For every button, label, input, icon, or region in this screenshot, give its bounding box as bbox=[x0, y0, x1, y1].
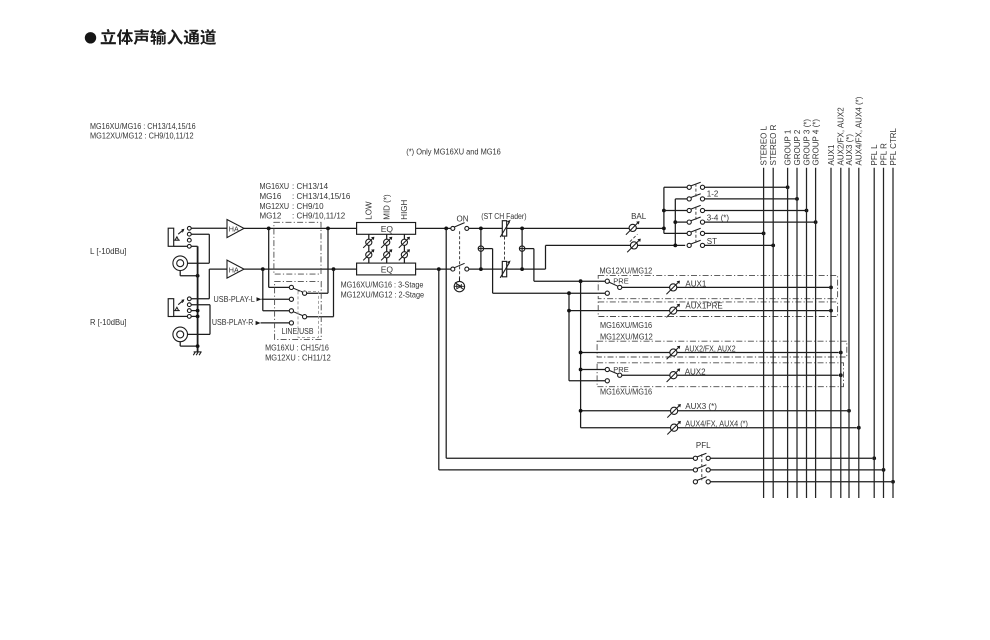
pot AUX2 bbox=[670, 372, 677, 379]
block EQ R bbox=[357, 263, 416, 275]
svg-text:: CH13/14,15/16: : CH13/14,15/16 bbox=[292, 192, 351, 201]
wire R ON to corner bbox=[469, 268, 546, 270]
wire group feed L row5 bbox=[664, 232, 687, 234]
box AUX1 bbox=[598, 275, 837, 298]
svg-text:AUX1: AUX1 bbox=[685, 280, 706, 289]
svg-text:MG16XU/MG16 : 3-Stage: MG16XU/MG16 : 3-Stage bbox=[341, 280, 424, 289]
svg-text:PFL: PFL bbox=[696, 441, 711, 450]
svg-text:HA: HA bbox=[229, 265, 239, 274]
box AUX1PRE bbox=[598, 302, 837, 317]
junction PFL L pickoff bbox=[444, 227, 448, 231]
wire group feed R vertical bbox=[674, 199, 676, 246]
junction RCA L ground bbox=[196, 274, 200, 278]
box model variant B bbox=[275, 281, 322, 339]
svg-text:GROUP 3 (*): GROUP 3 (*) bbox=[802, 119, 811, 166]
svg-text:MG16XU : CH15/16: MG16XU : CH15/16 bbox=[265, 343, 329, 352]
wire jack L contact2 bbox=[191, 233, 209, 235]
svg-text:GROUP 2: GROUP 2 bbox=[793, 129, 802, 165]
amp HA L bbox=[227, 220, 244, 238]
switch ST gang bbox=[695, 230, 697, 244]
svg-text:STEREO R: STEREO R bbox=[769, 124, 778, 165]
svg-text:USB-PLAY-L: USB-PLAY-L bbox=[214, 295, 256, 304]
junction AUX2 PRE branch bbox=[579, 368, 583, 372]
wire prefader vertical B bbox=[568, 293, 570, 381]
wire ground bus vertical bbox=[197, 246, 199, 352]
junction PFL R pickoff bbox=[437, 267, 441, 271]
wire jack L contact1 to HA1 bbox=[191, 227, 227, 229]
fader L bbox=[502, 221, 506, 236]
wire group feed L vertical bbox=[663, 187, 665, 233]
svg-text:USB-PLAY-R: USB-PLAY-R bbox=[212, 318, 254, 327]
junction AUX3 branch bbox=[579, 409, 583, 413]
pot BAL R bbox=[630, 242, 637, 249]
wire AUX1 row bbox=[622, 286, 829, 288]
junction R postfader sum bbox=[520, 267, 524, 271]
junction AUX3 bus bbox=[847, 409, 851, 413]
ground symbol bbox=[193, 352, 201, 355]
wire group feed R row4 bbox=[675, 221, 687, 223]
junction jack R contact3 bbox=[196, 309, 200, 313]
svg-text:MG12XU/MG12 : CH9/10,11/12: MG12XU/MG12 : CH9/10,11/12 bbox=[90, 132, 194, 141]
label channel table bbox=[260, 182, 351, 220]
wire RCA L ground stub bbox=[179, 271, 181, 276]
arrow USB-PLAY-L bbox=[257, 297, 262, 301]
wire RCA R ground stub bbox=[179, 342, 181, 346]
svg-text:BAL: BAL bbox=[631, 212, 647, 221]
svg-text:PRE: PRE bbox=[613, 276, 628, 285]
pot AUX1PRE bbox=[670, 307, 677, 314]
wire AUX2 PRE upper bbox=[581, 369, 606, 371]
junction AUX1PRE branch bbox=[567, 309, 571, 313]
wire group feed R row2 bbox=[675, 198, 687, 200]
amp HA R bbox=[227, 260, 244, 278]
svg-text:L [-10dBu]: L [-10dBu] bbox=[90, 247, 127, 256]
wire to HA2 input bbox=[209, 268, 227, 270]
wire R HA2 to EQ bbox=[244, 268, 357, 270]
junction AUX1 bus bbox=[829, 286, 833, 290]
junction L postfader sum bbox=[520, 227, 524, 231]
switch ON R bbox=[451, 267, 455, 271]
svg-text:MG12XU/MG12: MG12XU/MG12 bbox=[600, 267, 653, 276]
wire riser RCA L to jack contact 2 bbox=[208, 234, 210, 263]
wire AUX2 row bbox=[622, 374, 839, 376]
box AUX2FX bbox=[597, 341, 847, 357]
junction prefader aux branch bbox=[567, 291, 571, 295]
wire prefader sum riser bbox=[480, 228, 482, 269]
switch LINE/USB L bbox=[289, 285, 293, 289]
svg-text:GROUP 4 (*): GROUP 4 (*) bbox=[812, 119, 821, 166]
svg-text:MG16XU/MG16: MG16XU/MG16 bbox=[600, 321, 653, 330]
wire riser jack R to HA2 bbox=[208, 269, 210, 299]
phone jack L tip contact glyph bbox=[178, 230, 183, 235]
svg-text:LOW: LOW bbox=[365, 201, 374, 220]
wire RCA L tip to riser bbox=[188, 262, 210, 264]
svg-text:EQ: EQ bbox=[381, 264, 394, 274]
node sum prefader bbox=[478, 246, 483, 251]
wire R EQ to ON bbox=[416, 268, 451, 270]
svg-text:PFL CTRL: PFL CTRL bbox=[889, 127, 898, 165]
box usb switch inner bbox=[298, 291, 319, 337]
svg-text:PFL R: PFL R bbox=[879, 143, 888, 166]
wire AUX4 row bbox=[581, 427, 857, 429]
svg-text:AUX4/FX, AUX4 (*): AUX4/FX, AUX4 (*) bbox=[685, 420, 748, 429]
svg-text:MG12XU: MG12XU bbox=[260, 202, 290, 211]
title text 立体声输入通道 (drawn as paths) bbox=[101, 29, 216, 45]
junction L line/usb return bbox=[326, 227, 330, 231]
connector phone jack R sleeve bbox=[168, 299, 174, 317]
svg-text:ON: ON bbox=[457, 215, 469, 224]
block EQ L bbox=[357, 223, 416, 235]
wire L switch common return bbox=[307, 292, 328, 294]
switch ON gang dashes bbox=[459, 231, 461, 277]
junction AUX2FX branch bbox=[579, 351, 583, 355]
switch PFL gang bbox=[701, 454, 703, 480]
connector RCA R bbox=[173, 327, 188, 342]
pot BAL L bbox=[629, 224, 636, 231]
wire L branch down to switch bbox=[268, 228, 270, 287]
svg-text:EQ: EQ bbox=[381, 224, 394, 234]
wire L ON to BAL bbox=[469, 227, 664, 229]
junction AUX2 bus bbox=[839, 373, 843, 377]
switch 3-4 gang bbox=[695, 207, 697, 221]
svg-text:: CH13/14: : CH13/14 bbox=[292, 182, 329, 191]
svg-text:MG12: MG12 bbox=[260, 211, 282, 220]
svg-text:MG16XU/MG16: MG16XU/MG16 bbox=[600, 388, 653, 397]
svg-text:(ST CH Fader): (ST CH Fader) bbox=[481, 212, 526, 221]
wire jack R contact1 bbox=[191, 298, 209, 300]
wire group outputs to buses bbox=[705, 186, 788, 188]
svg-text:MID (*): MID (*) bbox=[382, 194, 391, 220]
wire AUX2FX row bbox=[581, 352, 839, 354]
wire PFL L out bbox=[710, 457, 872, 459]
pot EQ gain x6 bbox=[366, 239, 372, 245]
wire R branch down to switch bbox=[262, 269, 264, 311]
svg-text:3-4 (*): 3-4 (*) bbox=[707, 213, 730, 222]
wire jack R contact3 to ground bus bbox=[191, 310, 197, 312]
wire group feed L row1 bbox=[664, 186, 687, 188]
svg-text:AUX2: AUX2 bbox=[685, 368, 706, 377]
junction postfader aux branch bbox=[579, 279, 583, 283]
pot BAL gang dashes bbox=[630, 234, 638, 242]
wire USB-PLAY-R bbox=[261, 322, 290, 324]
wire postfader vertical A bbox=[580, 281, 582, 428]
junction group feed R mid bbox=[673, 220, 677, 224]
fader gang dashes bbox=[504, 237, 506, 262]
junction jack R contact4 bbox=[196, 315, 200, 319]
wire PFL R out bbox=[710, 469, 881, 471]
box model variant A bbox=[274, 222, 321, 274]
svg-text:AUX3 (*): AUX3 (*) bbox=[685, 402, 717, 411]
connector phone jack L contacts bbox=[187, 226, 191, 230]
box AUX2 bbox=[597, 363, 843, 387]
phone jack R tip contact glyph bbox=[178, 300, 183, 305]
connector phone jack R contacts bbox=[187, 297, 191, 301]
svg-text:HIGH: HIGH bbox=[400, 199, 409, 219]
wire jack L sleeve to ground bus bbox=[191, 245, 197, 247]
switch 1-2 gang bbox=[695, 184, 697, 198]
svg-text:R [-10dBu]: R [-10dBu] bbox=[90, 318, 127, 327]
svg-text:MG16XU: MG16XU bbox=[260, 182, 290, 191]
switch AUX1 PRE bbox=[605, 279, 609, 283]
wire group feed L row3 bbox=[664, 210, 687, 212]
svg-text:: CH9/10: : CH9/10 bbox=[292, 202, 324, 211]
node sum postfader bbox=[519, 246, 524, 251]
svg-text:MG12XU/MG12 : 2-Stage: MG12XU/MG12 : 2-Stage bbox=[341, 290, 425, 299]
fader R bbox=[502, 261, 506, 276]
arrow USB-PLAY-R bbox=[256, 321, 261, 325]
wire L EQ to ON bbox=[416, 227, 451, 229]
switch PFL x3 bbox=[693, 456, 697, 460]
svg-text:PFL L: PFL L bbox=[870, 144, 879, 166]
title bullet bbox=[85, 32, 96, 43]
junction R line/usb branch bbox=[261, 267, 265, 271]
junction AUX2FX bus bbox=[839, 351, 843, 355]
wire AUX2 PRE lower bbox=[569, 380, 605, 382]
svg-text:MG16XU/MG16 : CH13/14,15/16: MG16XU/MG16 : CH13/14,15/16 bbox=[90, 122, 196, 131]
junction R prefader sum bbox=[479, 267, 483, 271]
wire USB-PLAY-L bbox=[262, 298, 290, 300]
phone jack R ring contact glyph bbox=[174, 310, 180, 312]
junction group feed L mid bbox=[662, 209, 666, 213]
pot AUX3 bbox=[671, 407, 678, 414]
bus lines x13 bbox=[763, 168, 765, 498]
wire riser RCA R to jack R contact2 bbox=[209, 305, 211, 335]
wire EQ interconnects bbox=[368, 234, 370, 263]
wire R switch common return bbox=[307, 316, 334, 318]
wire R corner up bbox=[545, 245, 547, 269]
connector RCA L bbox=[173, 256, 188, 271]
wire prefader feed bbox=[484, 248, 493, 250]
svg-text:ST: ST bbox=[707, 237, 717, 246]
wire PFL CTRL out bbox=[710, 481, 891, 483]
wire L HA1 to EQ bbox=[244, 227, 357, 229]
pot AUX4 bbox=[671, 424, 678, 431]
junction RCA R ground bbox=[196, 344, 200, 348]
wire postfader feed bbox=[525, 248, 534, 250]
switch ON L bbox=[451, 226, 455, 230]
wire postfader sum riser bbox=[521, 228, 523, 269]
svg-text:AUX4/FX, AUX4 (*): AUX4/FX, AUX4 (*) bbox=[855, 96, 864, 165]
wire AUX1PRE row bbox=[569, 310, 829, 312]
pot AUX1 bbox=[670, 284, 677, 291]
svg-text:AUX3 (*): AUX3 (*) bbox=[845, 134, 854, 166]
phone jack R sleeve wire bbox=[174, 315, 188, 317]
junction L line/usb branch bbox=[267, 227, 271, 231]
phone jack L ring contact glyph bbox=[174, 239, 180, 241]
wire RCA R tip bbox=[188, 333, 211, 335]
wire PFL L pickoff bbox=[445, 228, 447, 458]
svg-text:HA: HA bbox=[229, 225, 239, 234]
switch LINE/USB R bbox=[289, 309, 293, 313]
wire R to group feed bbox=[546, 244, 686, 246]
svg-text:MG12XU/MG12: MG12XU/MG12 bbox=[600, 333, 653, 342]
junction L prefader sum bbox=[479, 227, 483, 231]
wire jack R contact2 bbox=[191, 304, 210, 306]
svg-text:AUX1: AUX1 bbox=[827, 144, 836, 165]
svg-text:MG12XU : CH11/12: MG12XU : CH11/12 bbox=[265, 354, 331, 363]
junction AUX4 bus bbox=[857, 426, 861, 430]
svg-text:STEREO L: STEREO L bbox=[760, 125, 769, 165]
svg-text:MG16: MG16 bbox=[260, 192, 282, 201]
indicator ON lamp bbox=[454, 281, 464, 291]
switch group assign x6 bbox=[687, 185, 691, 189]
svg-text:1-2: 1-2 bbox=[707, 189, 719, 198]
pot AUX2FX bbox=[670, 349, 677, 356]
wire PFL R pickoff bbox=[438, 269, 440, 470]
connector phone jack L sleeve bbox=[168, 228, 174, 246]
svg-text:GROUP 1: GROUP 1 bbox=[784, 129, 793, 165]
junction R line/usb return bbox=[332, 267, 336, 271]
phone jack L sleeve wire bbox=[174, 245, 188, 247]
wire jack R contact4 to ground bus bbox=[191, 315, 197, 317]
svg-text:PRE: PRE bbox=[613, 365, 628, 374]
svg-text:AUX1PRE: AUX1PRE bbox=[685, 302, 722, 311]
junction AUX1PRE bus bbox=[829, 309, 833, 313]
svg-text:(*) Only MG16XU and MG16: (*) Only MG16XU and MG16 bbox=[406, 147, 501, 156]
switch AUX2 PRE bbox=[605, 367, 609, 371]
svg-text:: CH9/10,11/12: : CH9/10,11/12 bbox=[292, 211, 346, 220]
svg-text:AUX2/FX, AUX2: AUX2/FX, AUX2 bbox=[685, 345, 736, 354]
wire AUX3 row bbox=[581, 410, 847, 412]
